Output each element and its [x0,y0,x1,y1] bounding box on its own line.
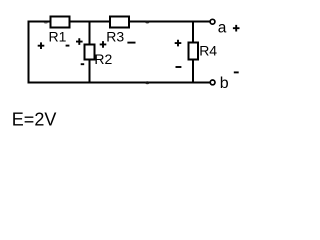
resistor R1 body [51,17,70,28]
junction top wire [145,21,149,24]
svg-text:R3: R3 [106,28,124,44]
resistor R4 body [189,43,199,60]
resistor R4 plus [175,40,182,47]
node b minus [234,71,239,73]
svg-text:E=2V: E=2V [12,110,57,130]
wire: top bus [28,21,211,23]
resistor R3 plus [100,41,107,48]
node a plus [233,25,240,32]
wire: R4 bottom lead [192,60,194,84]
resistor R4 minus [176,66,182,68]
junction bottom wire [145,81,149,84]
terminal a [210,19,215,24]
terminal b [210,80,215,85]
wire overlap mark near R1 [44,21,48,24]
wire: R4 top lead [192,22,194,43]
resistor R2 plus [76,38,83,45]
svg-text:R2: R2 [94,51,112,67]
resistor R2 minus [81,63,85,65]
svg-text:b: b [220,75,229,92]
resistor R3 body [110,17,129,28]
resistor R3 minus [127,42,135,44]
resistor R1 plus [38,42,45,49]
wire: R2 bottom lead [89,60,91,84]
wire: left vertical [28,21,30,84]
wire: bottom bus [28,82,211,84]
wire: R2 top lead [89,22,91,45]
svg-text:a: a [218,20,227,37]
svg-text:R4: R4 [199,42,217,58]
svg-text:R1: R1 [49,29,67,45]
resistor R2 body [85,45,95,60]
resistor R1 minus [66,45,70,47]
